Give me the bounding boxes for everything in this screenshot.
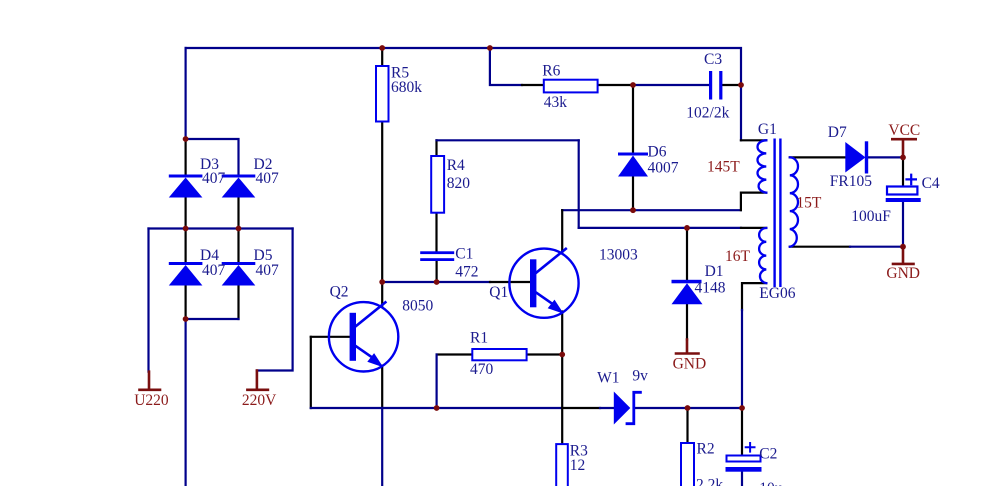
svg-text:R4: R4 xyxy=(447,157,465,174)
node VCC xyxy=(900,155,906,161)
wire left drop to bridge xyxy=(185,48,187,139)
wire D6 top lead xyxy=(632,85,634,153)
svg-text:GND: GND xyxy=(673,356,707,373)
svg-text:D6: D6 xyxy=(648,144,667,161)
svg-text:407: 407 xyxy=(256,262,280,279)
wire D6 bottom lead xyxy=(632,177,634,211)
diode D6 xyxy=(618,153,648,177)
wire D3 top lead xyxy=(185,139,187,175)
wire bottom run left xyxy=(311,407,562,409)
svg-text:R2: R2 xyxy=(697,441,715,458)
ground D1 symbol xyxy=(676,340,699,354)
diode D4 xyxy=(169,262,203,286)
wire R4 top lead xyxy=(435,140,437,156)
wire top rail xyxy=(186,48,741,140)
svg-text:4007: 4007 xyxy=(648,160,679,177)
svg-text:W1: W1 xyxy=(597,370,619,387)
svg-text:GND: GND xyxy=(886,265,920,282)
wire C3 right lead xyxy=(722,84,741,86)
wire R1 left drop xyxy=(436,355,438,409)
svg-text:U220: U220 xyxy=(134,392,169,409)
svg-text:16T: 16T xyxy=(725,248,751,265)
wire R5 bottom lead xyxy=(381,122,383,283)
svg-text:C2: C2 xyxy=(759,446,777,463)
wire minus link xyxy=(186,318,239,320)
wire R6 left lead xyxy=(522,84,544,86)
wire Q2 base drop xyxy=(310,337,312,408)
zener W1 xyxy=(614,392,641,425)
wire C1 bottom lead xyxy=(436,261,438,282)
wire 220V drop xyxy=(257,229,293,371)
wire Q2 collector lead xyxy=(381,282,383,306)
svg-text:D1: D1 xyxy=(705,263,724,280)
svg-text:C4: C4 xyxy=(922,175,940,192)
wire C4 bottom lead xyxy=(902,202,904,247)
wire D2 bottom lead xyxy=(237,198,239,229)
diode D2 xyxy=(222,175,256,198)
wire R5 top lead xyxy=(381,48,383,66)
svg-text:8050: 8050 xyxy=(402,298,433,315)
svg-text:FR105: FR105 xyxy=(830,173,872,190)
winding 145T primary xyxy=(758,140,767,192)
wire D7 right lead xyxy=(868,156,903,158)
wire U220 drop xyxy=(147,229,149,372)
wire 15T bottom lead xyxy=(790,246,850,248)
wire Q1 emitter lead xyxy=(561,312,563,445)
svg-text:VCC: VCC xyxy=(888,122,920,139)
wire R6 to C3 xyxy=(633,84,710,86)
resistor R5 xyxy=(376,66,389,122)
wire collector run xyxy=(562,209,741,211)
wire Q1 collector lead xyxy=(561,210,563,252)
resistor R3 xyxy=(556,444,568,486)
node AC right xyxy=(236,226,242,232)
svg-text:43k: 43k xyxy=(544,94,568,111)
wire C2 bottom lead xyxy=(741,472,743,486)
node R6 D6 xyxy=(630,82,636,88)
wire 15T return xyxy=(850,246,903,248)
node R2 top xyxy=(685,405,691,411)
svg-text:13003: 13003 xyxy=(599,247,638,264)
svg-text:10u: 10u xyxy=(759,480,783,486)
transistor Q1 xyxy=(509,249,578,318)
wire D3 bottom lead xyxy=(185,198,187,229)
wire R2 top lead xyxy=(686,408,688,443)
svg-text:2.2k: 2.2k xyxy=(696,477,723,486)
ground C4 symbol xyxy=(893,247,914,264)
wire bottom run to W1 xyxy=(562,407,600,409)
svg-text:102/2k: 102/2k xyxy=(686,105,729,122)
node D1 base xyxy=(684,225,690,231)
svg-text:472: 472 xyxy=(455,264,478,281)
diode D7 xyxy=(845,141,868,173)
wire W1 to C2 xyxy=(634,407,742,409)
svg-text:407: 407 xyxy=(202,170,226,187)
diode D5 xyxy=(222,262,256,286)
svg-text:Q2: Q2 xyxy=(330,284,349,301)
node rail R5 xyxy=(379,45,385,51)
resistor R2 xyxy=(681,443,694,486)
node R1 bottom xyxy=(434,405,440,411)
wire 16T top lead xyxy=(741,227,766,229)
node C1 base xyxy=(434,279,440,285)
node R1 emitter xyxy=(559,352,565,358)
winding 15T secondary xyxy=(790,157,798,246)
resistor R1 xyxy=(472,349,526,360)
ground U220 symbol xyxy=(140,372,161,390)
capacitor C1 xyxy=(420,251,454,261)
diode D1 xyxy=(672,280,703,305)
svg-text:100uF: 100uF xyxy=(851,208,891,225)
resistor R6 xyxy=(544,80,598,93)
wire feedback drop xyxy=(578,140,580,228)
wire C2 top lead xyxy=(741,408,743,456)
wire 16T bottom lead xyxy=(742,283,766,310)
svg-text:470: 470 xyxy=(470,361,494,378)
wire minus rail down xyxy=(185,319,187,486)
node bridge top xyxy=(183,136,189,142)
wire Q2 base lead xyxy=(311,336,349,338)
wire C4 top lead xyxy=(902,157,904,186)
wire rail drop to R6 xyxy=(490,48,522,85)
svg-text:680k: 680k xyxy=(391,79,422,96)
svg-text:G1: G1 xyxy=(758,121,777,138)
power VCC symbol xyxy=(892,139,915,157)
wire D4 bottom lead xyxy=(185,286,187,320)
svg-text:C1: C1 xyxy=(455,246,473,263)
wire 15T top lead xyxy=(790,156,846,158)
node D6 collector xyxy=(630,207,636,213)
svg-text:145T: 145T xyxy=(707,159,740,176)
wire D4 top lead xyxy=(185,229,187,263)
svg-text:407: 407 xyxy=(256,170,280,187)
capacitor C2 xyxy=(726,443,762,472)
resistor R4 xyxy=(431,156,444,213)
wire Q1 base run xyxy=(382,281,490,283)
wire Q1 base lead xyxy=(490,281,529,283)
ground 220V symbol xyxy=(247,371,268,390)
wire R1 left lead xyxy=(437,353,473,355)
wire Q2 emitter down xyxy=(381,408,383,486)
svg-text:820: 820 xyxy=(447,175,471,192)
svg-text:R1: R1 xyxy=(470,330,488,347)
node bridge bottom xyxy=(183,316,189,322)
wire R6 right lead xyxy=(598,84,633,86)
svg-text:D7: D7 xyxy=(828,124,847,141)
wire Q2 emitter lead xyxy=(381,366,383,408)
svg-text:407: 407 xyxy=(202,262,226,279)
svg-text:15T: 15T xyxy=(796,195,822,212)
transistor Q2 xyxy=(329,302,398,371)
transformer core xyxy=(773,139,781,288)
svg-text:220V: 220V xyxy=(242,392,277,409)
wire D5 bottom lead xyxy=(237,286,239,320)
svg-text:EG06: EG06 xyxy=(759,285,795,302)
diode D3 xyxy=(169,175,203,198)
wire D1 top lead xyxy=(686,228,688,280)
wire 16T down to C2 xyxy=(741,310,743,408)
node C2 top xyxy=(739,405,745,411)
capacitor C3 xyxy=(709,71,722,100)
wire base run to 16T xyxy=(579,227,741,229)
wire R1 right lead xyxy=(527,353,563,355)
node AC left xyxy=(183,226,189,232)
svg-text:Q1: Q1 xyxy=(489,284,508,301)
svg-text:R6: R6 xyxy=(542,63,560,80)
svg-text:C3: C3 xyxy=(704,51,722,68)
wire D5 top lead xyxy=(237,229,239,263)
wire R4 top run xyxy=(437,139,579,141)
node rail R6 xyxy=(487,45,493,51)
node C3 right xyxy=(738,82,744,88)
wire bridge top tee to D2 xyxy=(186,139,239,175)
wire 145T top lead xyxy=(741,139,766,141)
wire AC line xyxy=(149,227,293,229)
node Q2 collector xyxy=(379,279,385,285)
winding 16T aux xyxy=(759,228,766,283)
wire R4 bottom lead xyxy=(435,213,437,252)
svg-text:12: 12 xyxy=(570,457,586,474)
wire D1 bottom lead xyxy=(686,304,688,339)
wire 145T bottom lead xyxy=(741,193,766,211)
svg-text:9v: 9v xyxy=(632,368,648,385)
capacitor C4 xyxy=(886,175,921,202)
svg-text:4148: 4148 xyxy=(695,280,726,297)
node C4 gnd xyxy=(900,244,906,250)
